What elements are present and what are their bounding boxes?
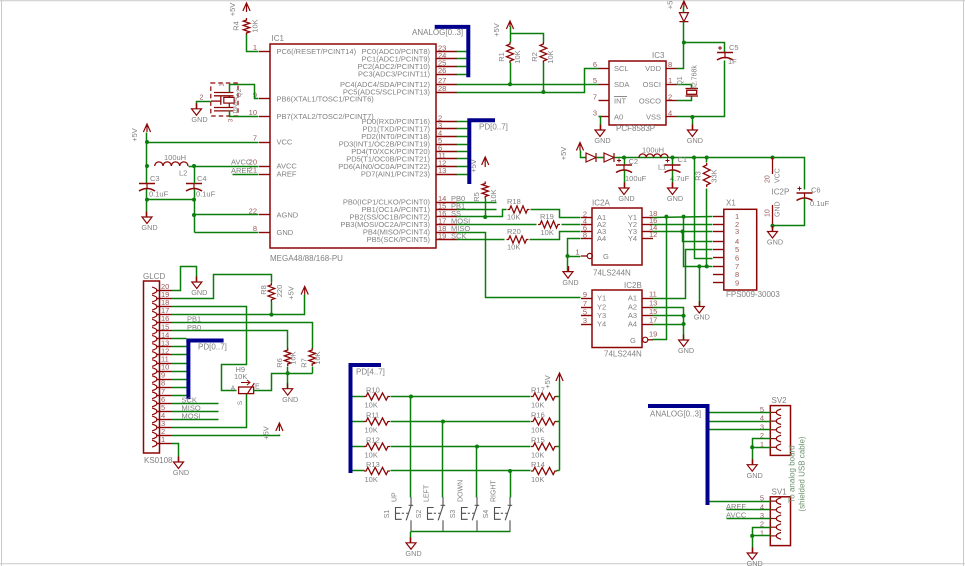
svg-text:8: 8 [583,230,587,239]
svg-text:C2: C2 [629,157,639,166]
svg-text:R13: R13 [366,460,380,469]
svg-text:11: 11 [649,290,657,299]
svg-text:L2: L2 [179,169,187,178]
svg-text:2: 2 [161,427,165,436]
switch S4 RIGHT [483,480,512,532]
svg-text:(shielded USB cable): (shielded USB cable) [798,436,807,511]
IC2A pin stubs and numbers [581,209,657,239]
resistor R10 10K [353,386,390,410]
wire R18 to IC2A A1 [531,210,581,218]
wire row R10 to R17 [391,395,531,399]
resistor R13 10K [353,460,390,484]
GLCD pin symbols stubs numbers [152,282,171,447]
svg-text:IC2P: IC2P [772,188,790,197]
svg-text:14: 14 [161,330,169,339]
wire net MISO GLCD pin5 [172,403,219,412]
svg-text:0.1uF: 0.1uF [810,199,830,208]
svg-text:R14: R14 [531,460,545,469]
wire IC2B A1 to X1 pin5 [653,250,713,299]
svg-text:GND: GND [562,278,578,287]
power +5V arrow at R4 [228,3,250,17]
svg-text:Y4: Y4 [597,320,606,329]
svg-text:+5V: +5V [559,147,568,161]
svg-text:SCK: SCK [451,232,466,241]
wire ANALOG bus to SV1 pin5 [710,501,771,503]
wire net PB1 pin16 to R7 [172,315,313,349]
svg-text:GND: GND [667,194,683,203]
svg-text:PB0: PB0 [187,323,201,332]
svg-text:VSS: VSS [646,113,661,122]
connector SV1 body [770,488,790,546]
svg-text:X1: X1 [726,199,736,208]
switch S1 UP [384,492,413,531]
wire row R13 to R14 [391,469,531,473]
svg-text:PCF8583P: PCF8583P [616,124,655,133]
svg-text:7: 7 [593,93,597,102]
ground under SV1 [747,548,763,566]
wires PD0-PD7 to PD bus [457,122,468,175]
svg-text:+5V: +5V [469,159,478,173]
IC2P power pins [765,158,790,226]
power +5V arrow above R5 [469,157,489,173]
svg-text:VCC: VCC [775,168,782,183]
ground under IC2P [767,226,783,247]
IC1 left pin names [277,47,375,237]
svg-text:19: 19 [438,231,446,240]
IC1 right pin names [338,47,430,244]
wire rail D3 to C6 corner [615,156,805,190]
wire net PB1 label [451,202,497,211]
svg-text:ANALOG[0..3]: ANALOG[0..3] [412,28,463,37]
ground under Q2 [191,103,207,124]
svg-text:1: 1 [161,435,165,444]
svg-text:1: 1 [575,248,579,257]
wire +5V to diodes [581,151,587,158]
svg-text:SCL: SCL [614,64,629,73]
svg-text:GND: GND [191,115,207,124]
X1 pin stubs and numbers [713,212,739,288]
svg-text:S4: S4 [483,510,490,519]
svg-text:10K: 10K [531,451,544,460]
wire GLCD pin1 to ground [172,444,179,463]
svg-text:SV2: SV2 [772,396,788,405]
svg-text:3: 3 [583,316,587,325]
svg-text:100uH: 100uH [164,153,186,162]
wire net PB0 pin15 to R6 [172,323,288,349]
svg-text:Y4: Y4 [628,234,637,243]
bus ANALOG[0..3] bottom [648,404,708,505]
wires GLCD pins 14-7 to bus [172,339,187,396]
wire net MISO down to IC2B Y1 [451,224,581,297]
IC2A pin names [597,213,637,261]
resistor R20 10K [507,227,529,252]
svg-text:R20: R20 [507,227,521,236]
svg-text:A4: A4 [628,320,637,329]
svg-text:SDA: SDA [614,80,629,89]
wire Q2 pin2 to ground [197,102,211,109]
resistor R15 10K [531,436,557,460]
ground stem below R6 junction [282,374,298,404]
wire column to switch S1 [410,397,412,498]
svg-text:E: E [255,384,260,391]
svg-text:19: 19 [649,329,657,338]
svg-text:+5V: +5V [130,128,139,142]
svg-text:INT: INT [614,97,627,106]
IC2B pin names [597,294,637,345]
wire net AVCC to SV1 pin3 [726,511,771,520]
svg-text:PC3(ADC3/PCINT11): PC3(ADC3/PCINT11) [358,70,430,79]
svg-text:10K: 10K [531,475,544,484]
svg-text:DOWN: DOWN [458,480,465,502]
svg-text:A4: A4 [597,234,606,243]
svg-text:10K: 10K [489,189,498,202]
svg-text:PD[0..7]: PD[0..7] [479,123,508,132]
wire R8 bottom to pin17 net and +5V [172,295,305,317]
wire Y1 to X1 pin1 and IC2B G riser [653,215,713,340]
svg-text:IC2A: IC2A [592,199,610,208]
svg-text:G: G [630,336,636,345]
wire SV2 pins 2-1 tied to ground [750,439,770,465]
svg-text:13: 13 [438,166,446,175]
svg-text:10K: 10K [313,351,322,364]
svg-text:GND: GND [747,471,763,480]
svg-text:+5V: +5V [287,286,296,300]
resistor R16 10K [531,411,557,435]
svg-text:1: 1 [253,43,257,52]
svg-text:R7: R7 [300,358,309,368]
svg-text:+5V: +5V [492,23,501,37]
switch S2 LEFT [416,484,445,531]
wire +5V to IC1 VCC pin7 [145,133,259,145]
svg-text:To analog board: To analog board [788,445,797,502]
svg-text:4: 4 [161,411,165,420]
wire net MOSI GLCD pin4 [172,411,219,420]
svg-text:L1: L1 [658,163,666,172]
svg-text:FPS009-30003: FPS009-30003 [726,290,780,299]
bus ANALOG[0..3] [412,27,468,77]
capacitor C6 0.1uF [797,186,830,209]
ground under VSS [687,117,703,146]
svg-text:R16: R16 [531,411,545,420]
svg-text:R4: R4 [232,21,241,31]
svg-text:100uH: 100uH [642,146,664,155]
svg-text:S: S [237,400,244,405]
svg-text:IC1: IC1 [272,34,285,43]
svg-text:OSCI: OSCI [643,80,661,89]
svg-text:+5V: +5V [262,426,271,440]
svg-text:AREF: AREF [277,170,297,179]
wire GLCD pin18 down to pot A [172,307,247,391]
svg-text:Q1: Q1 [677,76,684,85]
note To analog board [788,436,807,511]
power +5V arrow above R1/R2 [492,21,514,37]
ground under buttons [405,537,421,558]
svg-text:20: 20 [765,175,772,183]
wire Y3 branch to X1 pin4 [683,232,713,242]
capacitor C4 0.1uF [186,174,216,199]
resistor R12 10K [353,436,390,460]
svg-text:7: 7 [253,134,257,143]
wire R4 to IC1 pin1 [247,35,259,52]
svg-text:Y1: Y1 [597,294,606,303]
svg-text:GND: GND [767,238,783,247]
svg-text:1: 1 [668,76,672,85]
svg-text:G: G [603,252,609,261]
svg-text:KS0108: KS0108 [144,456,173,465]
svg-text:3: 3 [735,227,739,236]
wire R7 bottom junction [312,367,314,374]
ground above GLCD [191,277,207,298]
ground stem on pin7 net [694,267,710,322]
wire AREF label to IC1 pin21 [231,166,259,175]
wire AGND to IC1 pin22 [192,213,259,217]
ground under IC2B A2-A4 [678,335,694,356]
wires ANALOG bus to SV2 pins 5-3 [710,413,771,430]
inductor L2 100uH [155,153,188,178]
IC2B pin stubs and numbers [581,290,657,325]
wire net AREF to SV1 pin4 [726,502,771,511]
wire net SS to R18 [451,199,507,220]
svg-text:8: 8 [668,60,672,69]
wire column to switch S3 [476,447,478,498]
wire Y3 to X1 pin3 [653,230,713,234]
ground under C2 [618,183,634,204]
svg-text:GND: GND [191,288,207,297]
svg-text:GND: GND [173,468,189,477]
power +5V arrow analog rail [559,143,584,161]
IC2B G pin with inverter circle [643,329,658,342]
wire AVCC: L2 to IC1 pin20 [189,158,259,169]
svg-text:8: 8 [253,224,257,233]
svg-text:R2: R2 [530,52,539,62]
power +5V rail arrow for buttons [543,373,563,471]
svg-text:GND: GND [405,549,421,558]
svg-text:AREF: AREF [726,502,746,511]
wire diode to VDD and C5 [677,22,725,69]
svg-text:10: 10 [249,108,257,117]
wire R20 to IC2A A3 [530,232,581,240]
wire column to switch S4 [510,471,512,498]
svg-text:10K: 10K [531,401,544,410]
svg-text:+5V: +5V [543,375,552,389]
IC1 left pin numbers [249,43,257,233]
IC1 right pin stubs [436,52,457,240]
svg-text:PD[0..7]: PD[0..7] [198,343,227,352]
ground under C3 [141,212,157,233]
resistor R1 10K [497,42,522,64]
IC3 pin names [614,64,662,122]
svg-text:S2: S2 [416,510,423,519]
IC IC3 PCF8583P body [609,51,666,133]
wire between diodes [597,157,605,159]
wire GLCD pin19 to R8 [172,275,272,299]
wire pot E to R6/R7 bottom net [254,371,313,390]
IC3 pin numbers [593,60,672,118]
svg-text:PB7(XTAL2/TOSC2/PCINT7): PB7(XTAL2/TOSC2/PCINT7) [277,112,375,121]
svg-text:PD7(AIN1/PCINT23): PD7(AIN1/PCINT23) [361,170,431,179]
svg-text:10K: 10K [251,19,260,32]
ground under C1 [667,183,683,204]
svg-text:10K: 10K [531,426,544,435]
svg-text:PC5(ADC5/SCLPCINT13): PC5(ADC5/SCLPCINT13) [343,88,431,97]
resistor R7 10K [300,348,323,368]
diode D3 [604,153,614,162]
svg-text:A1: A1 [628,294,637,303]
svg-text:GND: GND [277,228,294,237]
connector GLCD body [143,272,173,465]
svg-text:LEFT: LEFT [424,484,431,502]
svg-text:28: 28 [438,84,446,93]
wire A0 to ground [599,117,601,131]
diode D1 vertical [679,7,688,22]
svg-text:R5: R5 [472,192,481,202]
power +5V arrow GLCD [287,286,309,300]
svg-text:C1: C1 [678,155,688,164]
svg-text:10K: 10K [234,372,247,381]
svg-text:AREF: AREF [231,166,251,175]
svg-text:26: 26 [438,66,446,75]
wire R3 bottom to pin7 net [706,189,708,267]
wire SDA: IC1 pin27 to IC3 [457,63,599,87]
resistor R17 10K [531,386,557,410]
svg-text:PD[4..7]: PD[4..7] [356,368,385,377]
wire IC2B A2-A4 common to ground [653,308,686,341]
switch S3 DOWN [450,480,479,531]
svg-text:VCC: VCC [277,138,293,147]
SV1 pin symbols and numbers [760,494,781,540]
wire Y2 to X1 pin2 [653,224,713,226]
svg-text:2: 2 [668,93,672,102]
svg-text:GND: GND [282,395,298,404]
svg-text:R12: R12 [366,436,380,445]
svg-text:R8: R8 [259,285,268,295]
svg-text:10K: 10K [365,426,378,435]
wire C4 top to AVCC net [194,167,196,184]
inductor L1 100uH [639,146,668,172]
svg-text:GND: GND [678,346,694,355]
resistor R14 10K [531,460,557,484]
capacitor C5 1F [717,43,739,66]
IC3 left pin stubs [599,69,610,117]
svg-text:9: 9 [583,290,587,299]
ground under IC3 A0 [594,125,610,146]
resistor R4 10K [232,18,260,35]
svg-text:PC6(/RESET/PCINT14): PC6(/RESET/PCINT14) [277,47,357,56]
svg-text:5: 5 [593,76,597,85]
svg-text:+5V: +5V [228,3,237,17]
svg-text:AVCC: AVCC [726,511,747,520]
connector SV2 body [770,396,790,455]
wire R14 to +5V rail [557,470,560,472]
ground under GLCD [173,457,189,478]
svg-text:OSCO: OSCO [639,97,661,106]
svg-text:0.1uF: 0.1uF [149,190,169,199]
svg-text:GND: GND [594,136,610,145]
svg-text:GND: GND [775,201,782,217]
svg-text:R1: R1 [497,52,506,62]
wire +5V down to L2/C3 [145,143,149,184]
wire net SCK GLCD pin6 [172,395,219,404]
svg-text:R11: R11 [366,411,379,420]
bus PD[0..7] [469,120,508,184]
svg-text:MOSI: MOSI [182,411,201,420]
svg-text:RIGHT: RIGHT [491,480,498,503]
crystal Q1 32.768k [677,65,699,101]
svg-text:10K: 10K [289,351,298,364]
wire pin1 net branch to X1 pin7 [682,215,713,269]
IC IC2B 74LS244N body [592,281,642,359]
svg-text:15: 15 [161,322,169,331]
wire GLCD pin3 to pot wiper [172,394,247,428]
wire +5V rail to X1 pin6 [695,158,713,259]
svg-text:100uF: 100uF [625,174,647,183]
svg-text:AGND: AGND [277,211,299,220]
svg-text:10K: 10K [365,451,378,460]
svg-text:17: 17 [161,306,169,315]
resistor R5 10K [472,182,498,203]
capacitor C2 100uF [616,157,647,189]
svg-text:5: 5 [161,403,165,412]
IC3 right pin stubs [666,69,677,117]
svg-text:C4: C4 [197,174,207,183]
wire net PB0 label [451,194,497,203]
wire switch common rail to ground [411,532,511,543]
power +5V arrow VCC [130,124,151,142]
svg-text:R19: R19 [540,212,554,221]
wire R15 to +5V rail [557,446,560,448]
svg-text:33K: 33K [710,169,719,182]
diode D2 [586,153,596,162]
power +5V arrow GLCD pin2 [262,423,284,440]
wire net SCK to R20 [451,232,505,241]
svg-text:10K: 10K [513,50,522,63]
svg-text:6: 6 [593,60,597,69]
svg-text:74LS244N: 74LS244N [604,350,642,359]
wire C5 to VSS line [677,61,725,120]
svg-text:IC2B: IC2B [624,281,642,290]
wire row R11 to R16 [391,420,531,424]
svg-text:GLCD: GLCD [143,272,165,281]
wires PC0-PC3 to ANALOG bus [457,52,467,75]
svg-text:R18: R18 [507,197,521,206]
svg-text:9: 9 [735,279,739,288]
svg-text:A0: A0 [614,113,623,122]
IC1 right pin numbers [438,43,446,240]
bus PD[4..7] [349,363,385,473]
svg-text:S3: S3 [450,510,457,519]
svg-text:3: 3 [593,109,597,118]
wire net MOSI to R19 [451,217,537,226]
wire GLCD pin2 to +5V [172,435,280,436]
wire Q2 pin3 to IC1 XTAL2 [230,111,259,117]
svg-text:10K: 10K [546,50,555,63]
svg-text:Q2: Q2 [236,88,243,97]
wire R6 bottom junction [287,367,289,374]
wire C3/C4 bottoms common [145,190,196,233]
wire GND to IC1 pin8 [195,232,259,234]
power +5V arrow top right [666,1,688,10]
wire SV1 pins 2-1 tied to ground [750,528,770,553]
wire R17 to +5V rail [557,396,560,398]
svg-text:GND: GND [687,136,703,145]
svg-text:10K: 10K [507,213,520,222]
svg-text:0.1uF: 0.1uF [196,190,216,199]
svg-text:220: 220 [275,285,284,298]
wire row R12 to R15 [391,445,531,449]
svg-text:1F: 1F [728,57,737,66]
svg-text:MEGA48/88/168-PU: MEGA48/88/168-PU [270,254,343,263]
svg-text:C3: C3 [150,174,160,183]
